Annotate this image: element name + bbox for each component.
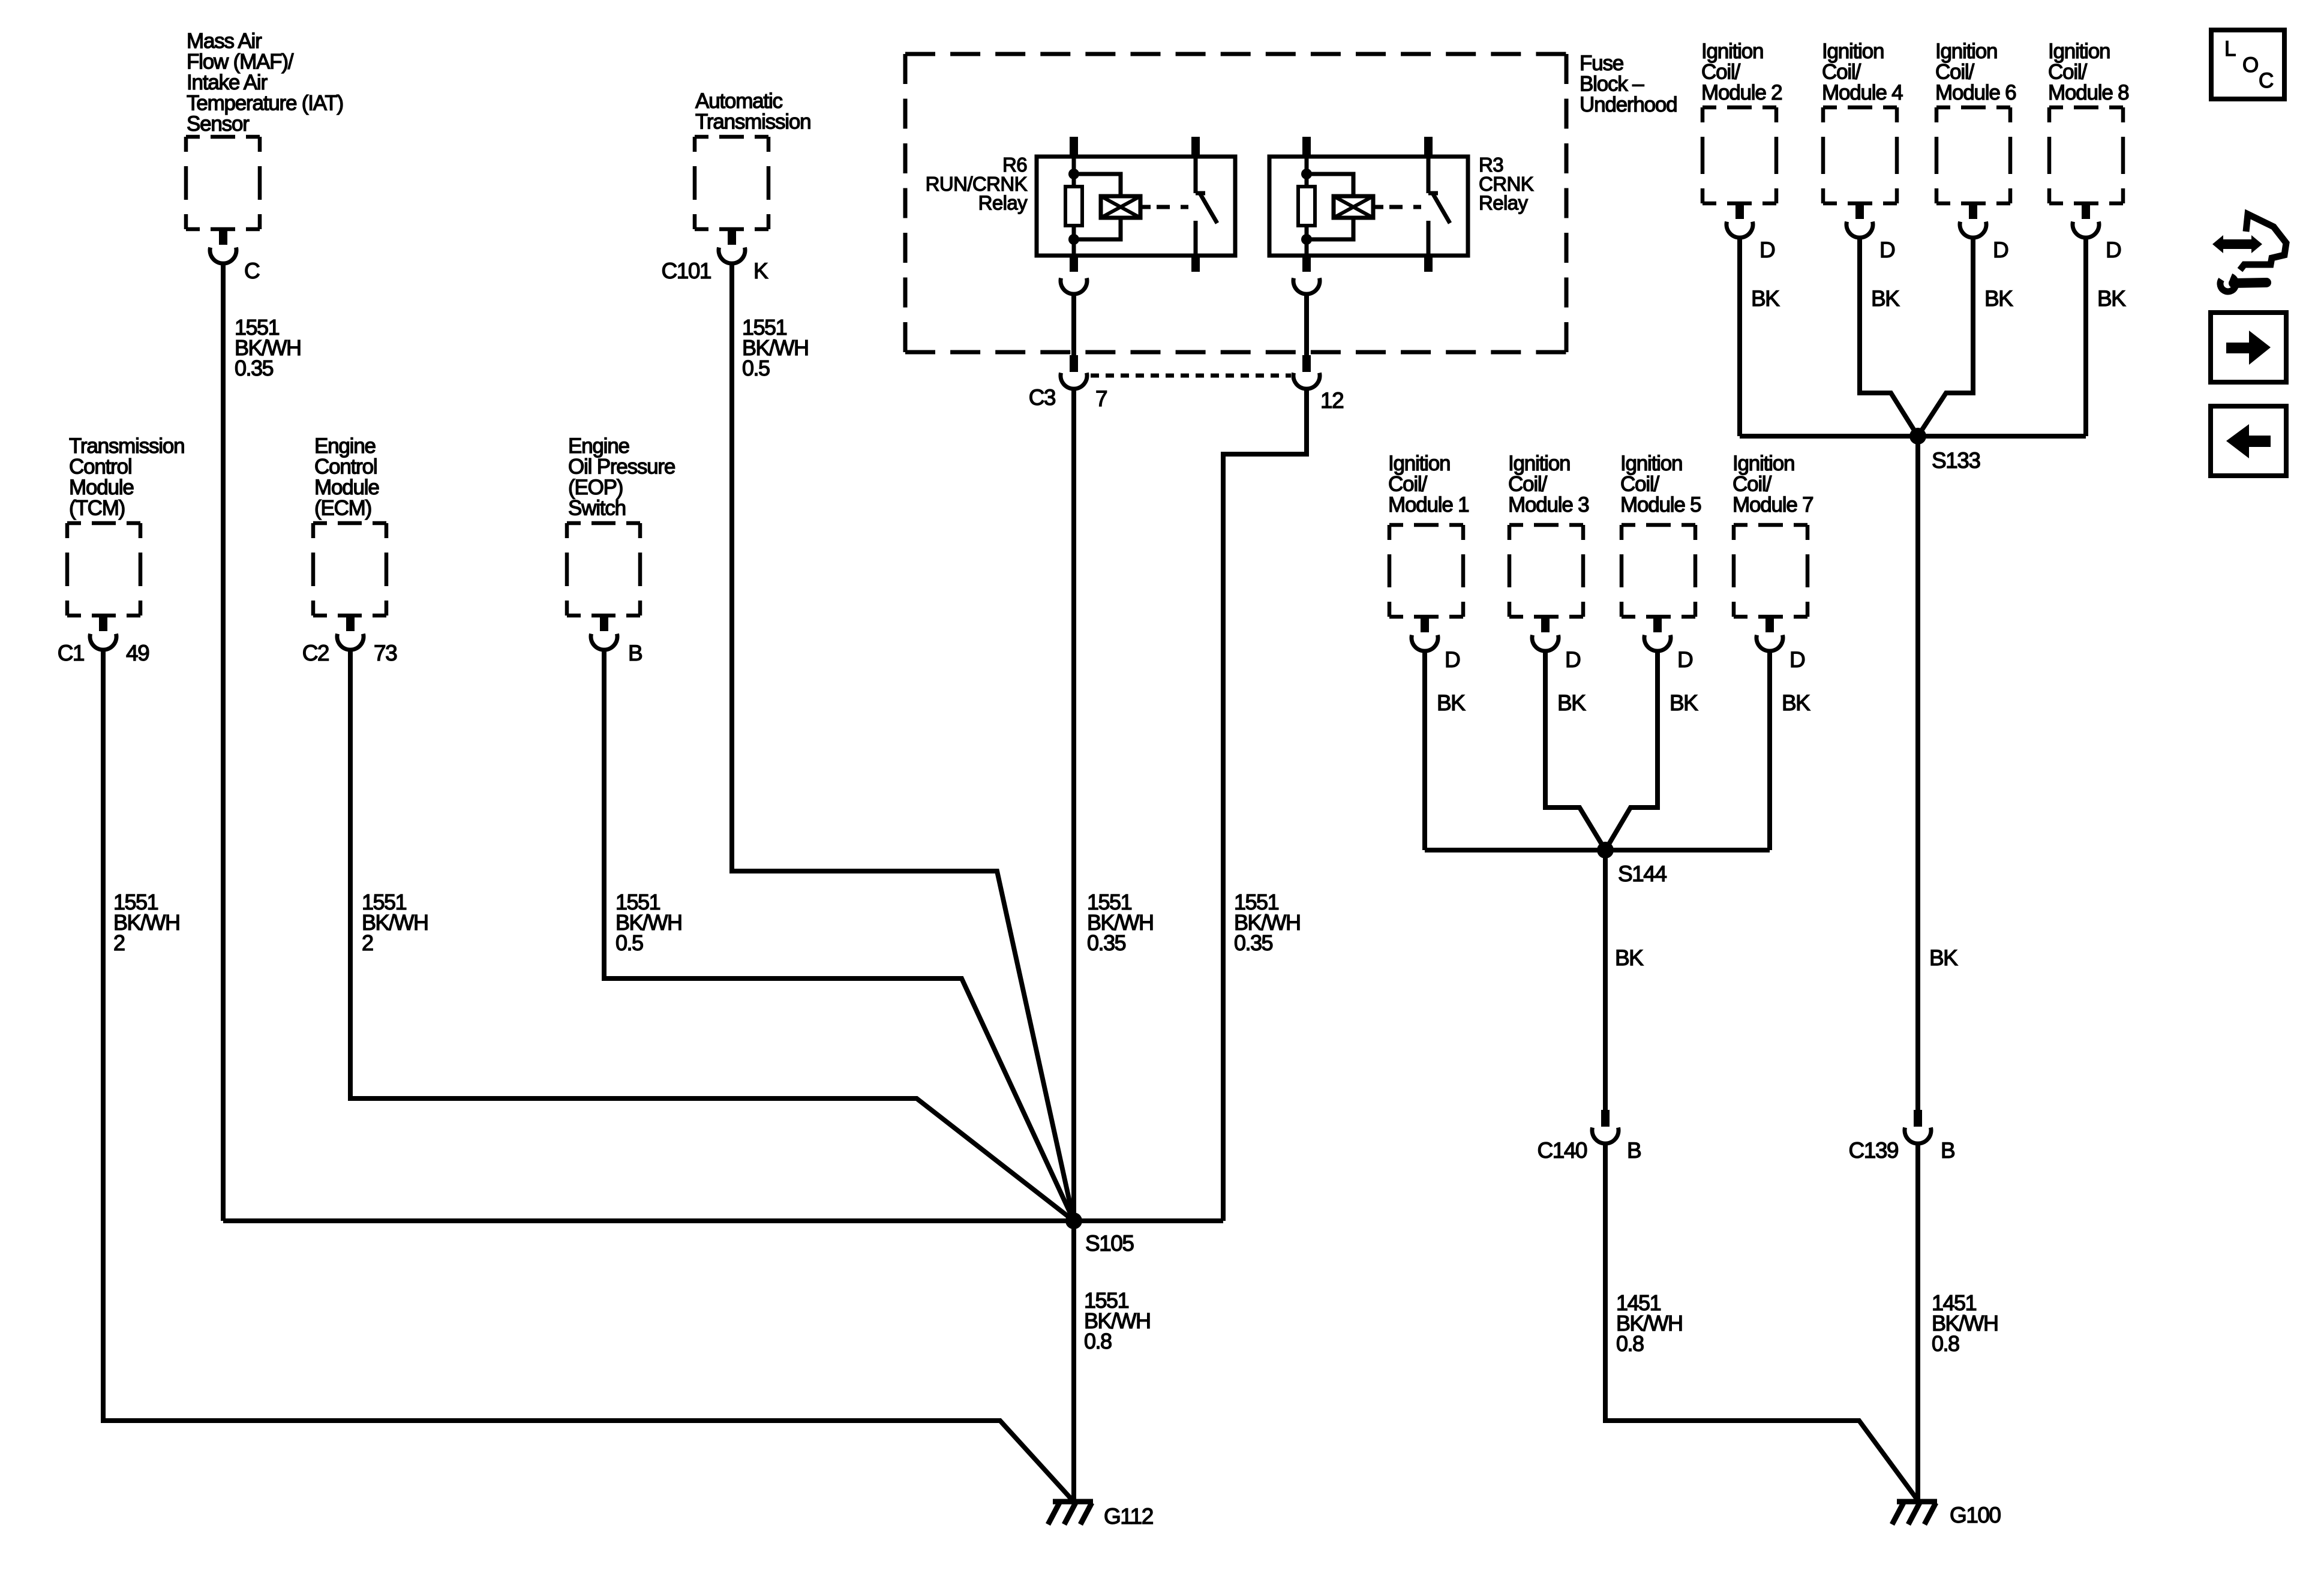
relay R6 RUN/CRNK pin stubs xyxy=(1070,137,1200,272)
svg-text:Ignition: Ignition xyxy=(1701,40,1763,63)
svg-text:Module 2: Module 2 xyxy=(1701,81,1782,104)
label Ignition Coil/Module 6 xyxy=(1935,40,2016,104)
svg-text:Automatic: Automatic xyxy=(695,89,783,113)
EOP pin B xyxy=(591,614,617,650)
Ignition Coil 7 pin D xyxy=(1756,616,1783,651)
svg-text:C140: C140 xyxy=(1538,1138,1587,1163)
svg-text:(EOP): (EOP) xyxy=(568,476,623,499)
forward arrow box xyxy=(2211,313,2286,382)
Ignition Coil 1 pin D xyxy=(1412,616,1438,651)
label Ignition Coil/Module 4 xyxy=(1822,40,1903,104)
svg-text:C: C xyxy=(2259,69,2274,92)
svg-text:2: 2 xyxy=(113,930,125,955)
wire label 1451 BK/WH 0.8 (C139) xyxy=(1932,1290,1998,1356)
label Ignition Coil/Module 7 xyxy=(1733,452,1813,517)
svg-text:Control: Control xyxy=(69,455,131,479)
Ignition Coil 2 pin D xyxy=(1727,202,1753,238)
wire label 1551 BK/WH 0.35 (pin 7) xyxy=(1087,890,1154,955)
wire EOP switch to S105 xyxy=(604,650,1074,1221)
Ignition Coil 8 pin D xyxy=(2073,202,2099,238)
svg-text:D: D xyxy=(1565,647,1580,672)
svg-text:C1: C1 xyxy=(58,641,84,665)
ECM box xyxy=(313,523,386,616)
wire label 1551 BK/WH 0.8 (S105-G112) xyxy=(1084,1288,1151,1353)
svg-text:BK: BK xyxy=(2097,286,2126,311)
ground G100 xyxy=(1892,1502,1937,1524)
svg-text:Module 8: Module 8 xyxy=(2048,81,2128,104)
svg-text:Coil/: Coil/ xyxy=(1620,473,1659,496)
svg-text:D: D xyxy=(1677,647,1692,672)
LOC legend box xyxy=(2211,30,2284,99)
svg-text:Coil/: Coil/ xyxy=(1508,473,1547,496)
Ignition Coil/Module 7 box xyxy=(1734,525,1807,617)
wire TCM to G112 xyxy=(103,650,1073,1500)
back arrow box xyxy=(2211,406,2286,476)
relay R6 RUN/CRNK actuator dashed link xyxy=(1140,205,1151,209)
Ignition Coil/Module 4 box xyxy=(1823,107,1897,203)
svg-text:73: 73 xyxy=(374,641,397,665)
svg-text:BK: BK xyxy=(1782,691,1810,715)
svg-text:Mass Air: Mass Air xyxy=(187,29,262,53)
svg-text:Engine: Engine xyxy=(568,434,629,458)
svg-text:Ignition: Ignition xyxy=(1620,452,1682,475)
svg-text:K: K xyxy=(753,259,768,283)
wire label 1551 BK/WH 2 (ECM) xyxy=(362,890,428,955)
svg-text:7: 7 xyxy=(1095,386,1107,411)
label TCM xyxy=(69,434,184,520)
svg-text:Coil/: Coil/ xyxy=(1388,473,1427,496)
relay R3 CRNK output wire to C3 xyxy=(1304,294,1309,356)
wire S133 horizontal bus xyxy=(1740,434,2086,439)
svg-text:D: D xyxy=(1879,238,1894,262)
svg-text:Sensor: Sensor xyxy=(187,112,250,136)
svg-text:B: B xyxy=(628,641,642,665)
Ignition Coil 3 pin D xyxy=(1532,616,1559,651)
connector C3 pin 12 xyxy=(1293,355,1320,389)
connector C139 xyxy=(1905,1110,1931,1143)
svg-text:Fuse: Fuse xyxy=(1580,52,1623,75)
relay R6 RUN/CRNK coil resistor xyxy=(1065,187,1082,226)
TCM box xyxy=(67,523,140,616)
svg-text:B: B xyxy=(1627,1138,1641,1163)
Fuse Block - Underhood dashed outline xyxy=(905,54,1566,352)
svg-text:Relay: Relay xyxy=(978,192,1028,214)
relay R6 RUN/CRNK output wire to C3 xyxy=(1071,294,1076,356)
svg-text:Transmission: Transmission xyxy=(69,434,184,458)
svg-text:(ECM): (ECM) xyxy=(314,497,371,520)
wire label 1551 BK/WH 0.35 (pin 12) xyxy=(1234,890,1301,955)
label Ignition Coil/Module 1 xyxy=(1388,452,1469,517)
relay R3 CRNK coil branch xyxy=(1307,157,1353,256)
svg-text:Coil/: Coil/ xyxy=(1822,61,1861,84)
svg-text:D: D xyxy=(1993,238,2008,262)
relay R3 CRNK pin stubs xyxy=(1302,137,1433,272)
svg-text:Coil/: Coil/ xyxy=(1733,473,1771,496)
svg-text:BK: BK xyxy=(1557,691,1586,715)
label ECM xyxy=(314,434,379,520)
wire module 6 to S133 xyxy=(1918,238,1973,436)
relay R3 CRNK coil resistor xyxy=(1298,187,1315,226)
svg-text:49: 49 xyxy=(126,641,149,665)
label Ignition Coil/Module 8 xyxy=(2048,40,2128,104)
svg-text:S133: S133 xyxy=(1932,448,1980,473)
splice S144 xyxy=(1597,842,1614,858)
svg-text:Module 4: Module 4 xyxy=(1822,81,1903,104)
Ignition Coil 5 pin D xyxy=(1644,616,1671,651)
Ignition Coil/Module 1 box xyxy=(1389,525,1463,617)
svg-text:L: L xyxy=(2224,37,2236,61)
wire label 1551 BK/WH 0.35 (MAF) xyxy=(235,315,301,380)
svg-text:BK: BK xyxy=(1437,691,1466,715)
svg-text:Block –: Block – xyxy=(1580,73,1644,96)
ground G112 xyxy=(1048,1502,1093,1524)
svg-text:Ignition: Ignition xyxy=(1508,452,1570,475)
wire C139 to G100 xyxy=(1915,1143,1920,1502)
MAF pin C xyxy=(210,228,236,263)
wire module 3 to S144 xyxy=(1545,651,1605,850)
svg-text:S105: S105 xyxy=(1085,1231,1134,1256)
label Ignition Coil/Module 2 xyxy=(1701,40,1782,104)
svg-text:Oil Pressure: Oil Pressure xyxy=(568,455,675,479)
wire module 4 to S133 xyxy=(1860,238,1918,436)
wire C3-7 to S105 xyxy=(1071,390,1076,1221)
label relay R3 xyxy=(1479,154,1534,214)
svg-text:Module 5: Module 5 xyxy=(1620,493,1701,517)
MAF/IAT sensor box xyxy=(186,137,260,229)
svg-text:Relay: Relay xyxy=(1479,192,1528,214)
svg-text:Module: Module xyxy=(69,476,134,499)
EOP switch box xyxy=(567,523,640,616)
label relay R6 xyxy=(926,154,1028,214)
svg-text:Transmission: Transmission xyxy=(695,110,810,134)
svg-text:BK: BK xyxy=(1615,945,1644,970)
relay R3 CRNK coil symbol xyxy=(1334,196,1373,218)
svg-text:O: O xyxy=(2242,53,2259,77)
wire label 1551 BK/WH 2 (TCM) xyxy=(113,890,180,955)
svg-text:0.5: 0.5 xyxy=(742,356,770,380)
svg-text:Control: Control xyxy=(314,455,377,479)
svg-text:Ignition: Ignition xyxy=(1935,40,1997,63)
svg-text:C3: C3 xyxy=(1029,385,1055,410)
splice S105 xyxy=(1065,1212,1082,1229)
relay R6 RUN/CRNK pin connector xyxy=(1061,278,1087,295)
wire S105 horizontal bus xyxy=(223,1218,1223,1223)
relay R6 RUN/CRNK box xyxy=(1037,157,1235,256)
Ignition Coil/Module 3 box xyxy=(1509,525,1583,617)
svg-text:S144: S144 xyxy=(1618,861,1667,886)
ECM pin 73 xyxy=(337,614,364,650)
label Automatic Transmission xyxy=(695,89,810,134)
wire ECM to S105 xyxy=(350,650,1074,1221)
svg-text:Ignition: Ignition xyxy=(1388,452,1450,475)
relay R3 CRNK actuator dashed link xyxy=(1373,205,1383,209)
svg-text:2: 2 xyxy=(362,930,373,955)
Automatic Transmission box xyxy=(695,137,768,229)
data link / diagnostic icon xyxy=(2212,214,2286,292)
svg-text:B: B xyxy=(1941,1138,1954,1163)
svg-text:Module: Module xyxy=(314,476,379,499)
svg-text:0.35: 0.35 xyxy=(1234,930,1273,955)
Ignition Coil/Module 8 box xyxy=(2049,107,2123,203)
connector C3 pin 7 xyxy=(1061,355,1087,389)
AT pin K xyxy=(719,228,745,263)
wire module 1 to S144 xyxy=(1422,651,1427,850)
wire label 1551 BK/WH 0.5 (EOP) xyxy=(615,890,682,955)
svg-text:D: D xyxy=(1445,647,1460,672)
svg-text:G112: G112 xyxy=(1104,1504,1153,1529)
wire label 1551 BK/WH 0.5 (AT) xyxy=(742,315,809,380)
relay R6 RUN/CRNK switch xyxy=(1196,157,1217,256)
svg-text:0.8: 0.8 xyxy=(1084,1329,1112,1353)
label MAF/IAT sensor xyxy=(187,29,343,136)
wire module 2 to S133 xyxy=(1737,238,1742,436)
svg-text:C2: C2 xyxy=(302,641,329,665)
svg-text:Ignition: Ignition xyxy=(1733,452,1794,475)
wire module 5 to S144 xyxy=(1605,651,1658,850)
svg-text:(TCM): (TCM) xyxy=(69,497,125,520)
label Fuse Block - Underhood xyxy=(1580,52,1677,116)
svg-text:D: D xyxy=(1789,647,1804,672)
wire C140 to G100 xyxy=(1605,1143,1918,1500)
Ignition Coil 4 pin D xyxy=(1846,202,1873,238)
Ignition Coil 6 pin D xyxy=(1960,202,1986,238)
svg-text:Flow (MAF)/: Flow (MAF)/ xyxy=(187,50,294,74)
svg-text:BK: BK xyxy=(1670,691,1698,715)
svg-text:BK: BK xyxy=(1929,945,1958,970)
Ignition Coil/Module 2 box xyxy=(1703,107,1776,203)
svg-text:0.8: 0.8 xyxy=(1932,1331,1959,1356)
svg-text:C139: C139 xyxy=(1849,1138,1898,1163)
svg-text:D: D xyxy=(2106,238,2121,262)
relay R3 CRNK pin connector xyxy=(1293,278,1320,295)
label EOP switch xyxy=(568,434,675,520)
wire S105 to G112 xyxy=(1071,1221,1076,1502)
svg-text:0.35: 0.35 xyxy=(1087,930,1126,955)
wire MAF sensor to S105 bus xyxy=(221,263,226,1221)
svg-text:Coil/: Coil/ xyxy=(1935,61,1974,84)
relay R3 CRNK switch xyxy=(1428,157,1450,256)
wire Automatic Transmission to S105 xyxy=(732,263,1074,1221)
svg-text:Coil/: Coil/ xyxy=(2048,61,2087,84)
splice S133 xyxy=(1909,428,1926,445)
wire label 1451 BK/WH 0.8 (C140) xyxy=(1616,1290,1683,1356)
TCM pin 49 xyxy=(90,614,116,650)
wire module 8 to S133 xyxy=(2083,238,2088,436)
svg-text:BK: BK xyxy=(1751,286,1780,311)
svg-text:D: D xyxy=(1759,238,1774,262)
svg-text:G100: G100 xyxy=(1950,1503,2001,1527)
svg-text:Ignition: Ignition xyxy=(1822,40,1884,63)
Ignition Coil/Module 5 box xyxy=(1622,525,1695,617)
svg-text:12: 12 xyxy=(1320,388,1343,413)
svg-text:Engine: Engine xyxy=(314,434,376,458)
wire S144 horizontal bus xyxy=(1425,848,1770,852)
svg-text:Module 6: Module 6 xyxy=(1935,81,2016,104)
svg-text:Module 1: Module 1 xyxy=(1388,493,1469,517)
svg-text:0.5: 0.5 xyxy=(615,930,643,955)
svg-text:Ignition: Ignition xyxy=(2048,40,2110,63)
wire C3-12 down xyxy=(1223,390,1307,1221)
svg-text:Coil/: Coil/ xyxy=(1701,61,1740,84)
Ignition Coil/Module 6 box xyxy=(1936,107,2010,203)
svg-text:Module 7: Module 7 xyxy=(1733,493,1813,517)
relay R3 CRNK box xyxy=(1269,157,1468,256)
wire module 7 to S144 xyxy=(1767,651,1772,850)
svg-text:Intake Air: Intake Air xyxy=(187,71,268,94)
svg-text:Switch: Switch xyxy=(568,497,626,520)
wire S144 to C140 xyxy=(1603,850,1608,1110)
relay R6 RUN/CRNK coil branch xyxy=(1074,157,1121,256)
svg-text:BK: BK xyxy=(1984,286,2013,311)
svg-text:BK: BK xyxy=(1871,286,1900,311)
svg-text:Temperature (IAT): Temperature (IAT) xyxy=(187,92,343,115)
svg-text:0.35: 0.35 xyxy=(235,356,274,380)
svg-text:C101: C101 xyxy=(662,259,711,283)
connector C140 xyxy=(1592,1110,1619,1143)
wire S133 to C139 xyxy=(1915,436,1920,1110)
svg-text:Module 3: Module 3 xyxy=(1508,493,1589,517)
C3 connector dotted link xyxy=(1091,374,1291,378)
svg-text:Underhood: Underhood xyxy=(1580,93,1677,116)
label Ignition Coil/Module 5 xyxy=(1620,452,1701,517)
svg-text:C: C xyxy=(244,259,260,283)
relay R6 RUN/CRNK coil symbol xyxy=(1101,196,1140,218)
svg-text:0.8: 0.8 xyxy=(1616,1331,1644,1356)
label Ignition Coil/Module 3 xyxy=(1508,452,1589,517)
